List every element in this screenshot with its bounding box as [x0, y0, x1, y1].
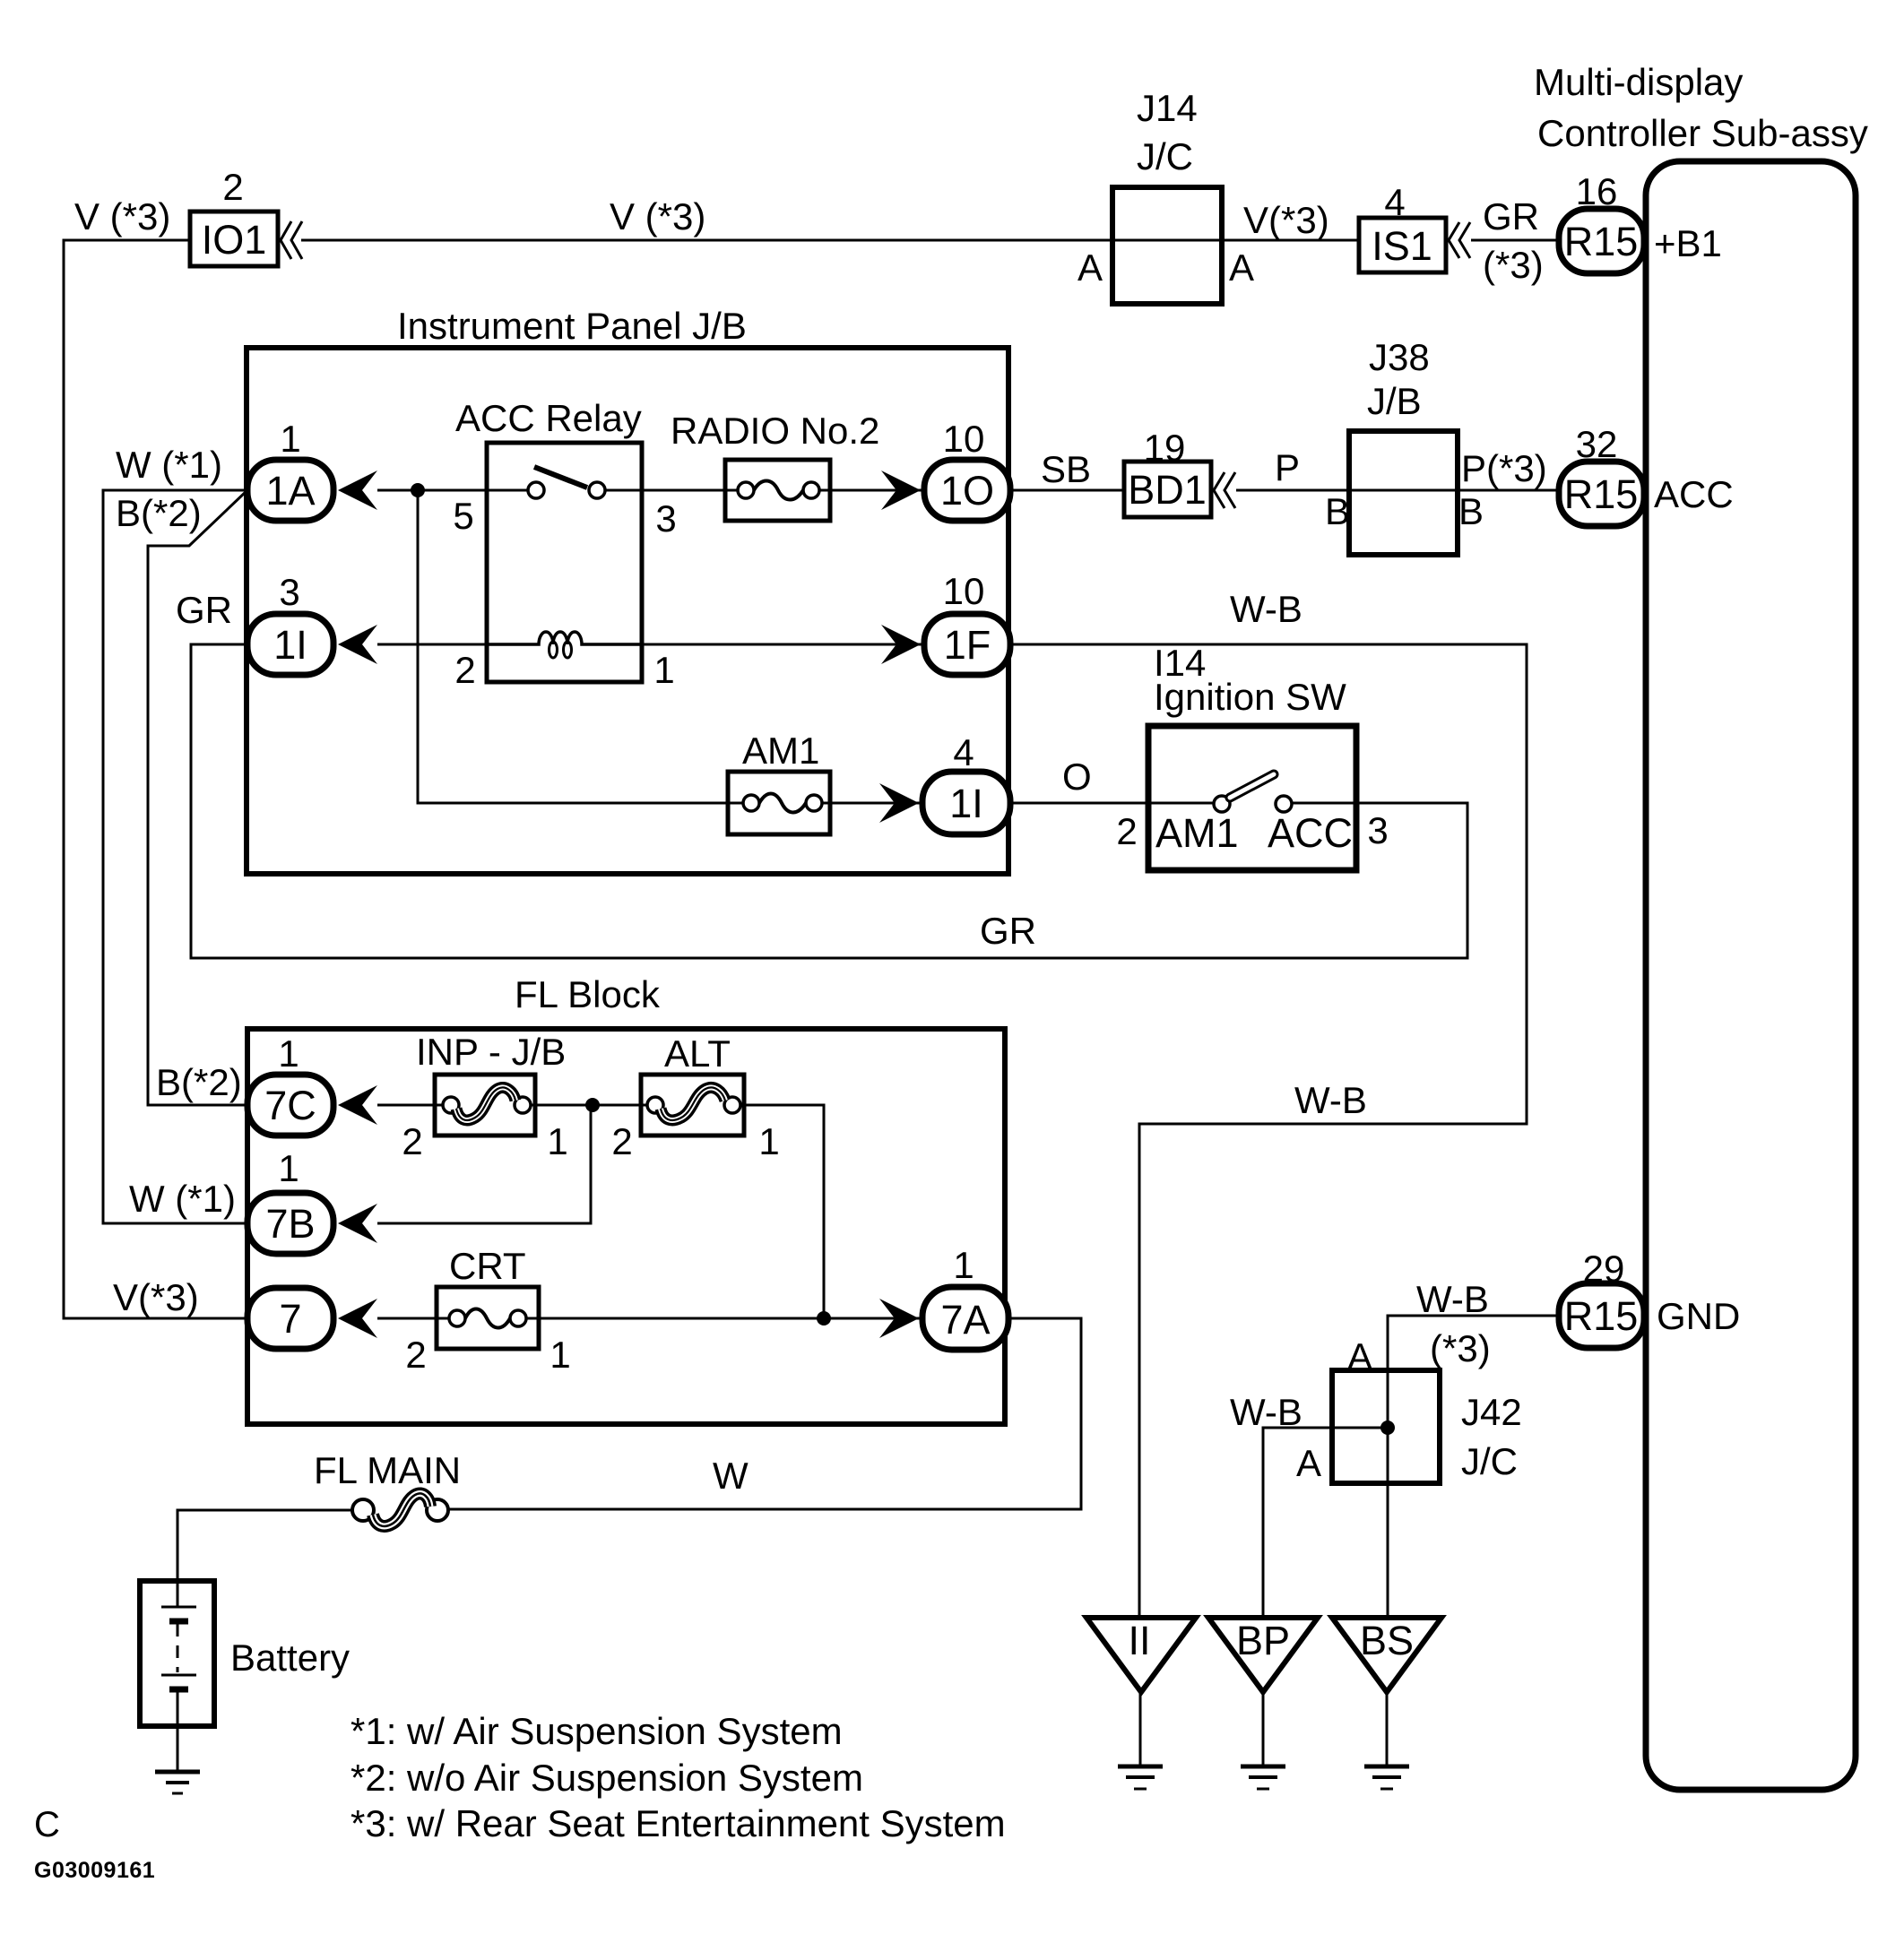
black arrow right of 7: [338, 1299, 377, 1338]
wire 1I(4) to ignition switch: [1010, 802, 1214, 805]
svg-text:W-B: W-B: [1230, 588, 1303, 630]
connector 1A: [247, 460, 333, 521]
black arrow left of 1O: [881, 471, 921, 510]
battery plate long top: [161, 1606, 196, 1609]
connector 7A: [922, 1287, 1008, 1350]
svg-text:3: 3: [655, 497, 676, 540]
svg-text:CRT: CRT: [449, 1245, 526, 1287]
svg-text:*1: w/ Air Suspension System: *1: w/ Air Suspension System: [351, 1710, 843, 1752]
svg-text:(*3): (*3): [1430, 1327, 1491, 1369]
wire R15 GND left to J42 down to BS ground: [1388, 1316, 1559, 1618]
svg-text:ACC: ACC: [1268, 810, 1353, 856]
svg-text:1: 1: [653, 649, 674, 691]
svg-text:II: II: [1128, 1618, 1150, 1663]
wire relay coil pin1 to 1F: [642, 643, 924, 646]
svg-text:G03009161: G03009161: [34, 1858, 155, 1883]
chevron arrow at IS1: [1449, 222, 1459, 258]
Instrument Panel J/B box: [247, 348, 1008, 874]
svg-text:7B: 7B: [265, 1201, 315, 1247]
fuse RADIO No.2: [725, 460, 830, 521]
wire from junction down to AM1 fuse row: [418, 490, 751, 803]
svg-text:W-B: W-B: [1230, 1391, 1303, 1433]
svg-text:1: 1: [547, 1120, 567, 1162]
svg-text:1: 1: [758, 1120, 779, 1162]
wire FL MAIN to battery: [177, 1510, 352, 1581]
battery dashed center line: [177, 1624, 179, 1672]
svg-text:GR: GR: [980, 910, 1036, 952]
svg-text:O: O: [1062, 756, 1092, 798]
wire B(*2) from 1A down to 7C: [148, 490, 247, 1105]
wire RADIO No.2 fuse to 1O: [819, 489, 924, 492]
battery internal wire top: [177, 1581, 179, 1607]
svg-text:3: 3: [279, 571, 299, 613]
svg-text:Ignition SW: Ignition SW: [1154, 676, 1346, 718]
FL Block box: [247, 1029, 1005, 1424]
fusible link FL MAIN: [352, 1499, 374, 1521]
svg-text:V(*3): V(*3): [1243, 199, 1329, 241]
svg-text:W: W: [713, 1455, 749, 1497]
ground symbol under battery: [155, 1770, 200, 1775]
svg-text:IS1: IS1: [1372, 223, 1432, 269]
wire 1F W-B loop to II ground triangle: [1010, 644, 1527, 1618]
svg-text:B: B: [1325, 490, 1350, 532]
svg-text:7C: 7C: [264, 1083, 316, 1128]
black arrow right of 1I: [338, 625, 377, 664]
black arrow left of 1F: [881, 625, 921, 664]
svg-text:V (*3): V (*3): [610, 195, 705, 237]
wire 1O to BD1: [1010, 489, 1124, 492]
svg-text:GR: GR: [176, 589, 232, 631]
relay switch blade: [534, 467, 587, 488]
wire BS triangle to ground: [1386, 1692, 1389, 1766]
connector 1I lower: [922, 772, 1010, 834]
wire relay internal top left: [487, 489, 528, 492]
wire BP triangle to ground: [1262, 1692, 1265, 1766]
connector 1O: [924, 460, 1010, 521]
black arrow right of 7C: [338, 1085, 377, 1125]
ACC Relay box: [487, 443, 642, 682]
wire W(*1) from 1A down to 7B: [103, 490, 247, 1223]
ignition lever: [1230, 774, 1274, 798]
svg-text:1: 1: [280, 418, 300, 460]
fusible link ALT: [641, 1075, 744, 1136]
svg-text:J/B: J/B: [1367, 380, 1422, 422]
black arrow left of 1I(4): [879, 783, 919, 823]
svg-text:FL MAIN: FL MAIN: [314, 1449, 461, 1491]
ground triangle BS: [1332, 1618, 1441, 1692]
wire V(*3) from IO1 left going down left margin to FL block connector 7: [64, 240, 247, 1318]
ground symbol under BS: [1364, 1765, 1409, 1769]
ground triangle II: [1086, 1618, 1196, 1692]
svg-text:1I: 1I: [273, 622, 307, 668]
fusible link INP-J/B: [435, 1075, 535, 1136]
wire through J38 to R15 ACC: [1349, 489, 1559, 492]
svg-text:C: C: [34, 1805, 60, 1844]
junction node on 1A wire: [411, 483, 425, 497]
ground symbol under BP: [1241, 1765, 1285, 1769]
junction J38 J/B box: [1349, 431, 1458, 555]
connector 7: [247, 1288, 333, 1349]
svg-text:5: 5: [453, 495, 473, 537]
connector 1I: [247, 614, 333, 675]
wire INP link to ALT link: [531, 1104, 655, 1107]
svg-text:1I: 1I: [949, 781, 983, 826]
connector IO1: [190, 212, 278, 266]
wire GR(*3) from IS1 to R15 +B1: [1471, 239, 1559, 242]
svg-text:+B1: +B1: [1654, 222, 1722, 264]
connector R15 ACC: [1559, 462, 1644, 526]
svg-text:7A: 7A: [940, 1297, 990, 1343]
svg-text:R15: R15: [1564, 1293, 1639, 1339]
svg-text:Instrument Panel J/B: Instrument Panel J/B: [397, 305, 747, 347]
svg-text:ALT: ALT: [664, 1032, 731, 1075]
svg-text:A: A: [1077, 246, 1103, 289]
ignition ACC contact: [1276, 796, 1292, 812]
wire ALT link right then down to 7A wire junction: [740, 1105, 824, 1318]
battery plate short thick bottom: [169, 1687, 188, 1693]
fuse CRT: [437, 1287, 539, 1349]
ECU Multi-display Controller Sub-assy outline: [1646, 161, 1856, 1790]
svg-text:V (*3): V (*3): [74, 195, 170, 237]
wire 7C to INP-J/B link: [377, 1104, 451, 1107]
svg-text:3: 3: [1367, 809, 1388, 851]
connector R15 +B1: [1559, 209, 1644, 273]
wire GR from 1I down and right to ignition switch loop: [191, 644, 1467, 958]
svg-text:2: 2: [454, 649, 475, 691]
svg-text:(*3): (*3): [1483, 244, 1544, 286]
svg-text:7: 7: [279, 1296, 301, 1342]
svg-text:J42: J42: [1461, 1391, 1522, 1433]
svg-text:BS: BS: [1360, 1618, 1414, 1663]
svg-text:SB: SB: [1041, 448, 1091, 490]
svg-text:P: P: [1275, 446, 1300, 488]
svg-text:P(*3): P(*3): [1461, 447, 1547, 489]
svg-text:10: 10: [943, 570, 985, 612]
svg-text:BD1: BD1: [1128, 467, 1207, 513]
junction J14 J/C box: [1112, 187, 1222, 304]
svg-text:INP - J/B: INP - J/B: [416, 1031, 566, 1073]
svg-text:B: B: [1458, 490, 1484, 532]
black arrow right of 7B: [338, 1204, 377, 1243]
svg-text:1: 1: [278, 1147, 299, 1189]
wire 1A to ACC relay pin 5: [377, 489, 487, 492]
svg-text:Battery: Battery: [230, 1636, 350, 1679]
svg-text:*2: w/o Air Suspension System: *2: w/o Air Suspension System: [351, 1757, 863, 1799]
svg-text:1: 1: [550, 1334, 570, 1376]
svg-text:V(*3): V(*3): [113, 1276, 199, 1318]
ignition AM1 contact: [1214, 796, 1230, 812]
connector R15 GND: [1559, 1283, 1644, 1348]
junction node between INP and ALT: [585, 1098, 600, 1112]
svg-text:AM1: AM1: [1155, 810, 1239, 856]
svg-text:2: 2: [402, 1120, 422, 1162]
svg-text:FL Block: FL Block: [515, 973, 661, 1015]
svg-text:Controller Sub-assy: Controller Sub-assy: [1537, 112, 1868, 154]
svg-text:2: 2: [222, 166, 243, 208]
fuse AM1: [728, 772, 830, 834]
svg-text:GND: GND: [1657, 1295, 1740, 1337]
svg-text:IO1: IO1: [202, 217, 267, 263]
svg-text:R15: R15: [1564, 471, 1639, 517]
svg-text:1O: 1O: [940, 468, 994, 514]
wire BD1 to J38: [1236, 489, 1349, 492]
svg-text:1A: 1A: [265, 468, 315, 514]
svg-text:W-B: W-B: [1294, 1079, 1367, 1121]
wire 7 to CRT fuse: [377, 1317, 457, 1320]
svg-text:BP: BP: [1236, 1618, 1290, 1663]
svg-text:1: 1: [953, 1244, 974, 1286]
chevron arrow at BD1: [1214, 472, 1225, 508]
connector 7C: [247, 1075, 333, 1136]
junction J42 J/C box: [1332, 1370, 1440, 1483]
connector IS1: [1359, 218, 1446, 272]
ignition wire ACC contact to box edge: [1292, 802, 1356, 805]
battery plate long bottom: [161, 1674, 196, 1677]
black arrow left of 7A: [879, 1299, 919, 1338]
svg-text:W (*1): W (*1): [129, 1178, 236, 1220]
svg-text:W (*1): W (*1): [116, 444, 222, 486]
svg-text:2: 2: [1116, 810, 1137, 852]
svg-text:J14: J14: [1137, 87, 1198, 129]
wire II triangle to ground: [1139, 1692, 1142, 1766]
black arrow right of 1A: [338, 471, 377, 510]
svg-text:R15: R15: [1564, 219, 1639, 264]
svg-text:B(*2): B(*2): [116, 492, 202, 534]
chevron arrow at IO1: [281, 221, 291, 259]
svg-text:4: 4: [953, 731, 974, 773]
battery plate short thick top: [169, 1619, 188, 1625]
battery box: [140, 1581, 214, 1726]
svg-text:1: 1: [278, 1032, 299, 1075]
svg-text:2: 2: [405, 1334, 426, 1376]
wire relay internal top right: [605, 489, 642, 492]
relay switch contact left: [528, 482, 544, 498]
junction node on 7A wire: [817, 1311, 831, 1326]
svg-text:*3: w/ Rear Seat Entertainment: *3: w/ Rear Seat Entertainment System: [351, 1802, 1006, 1844]
svg-text:AM1: AM1: [742, 730, 819, 772]
connector BD1: [1124, 462, 1211, 517]
wire relay pin3 to RADIO No.2 fuse: [642, 489, 746, 492]
svg-text:J38: J38: [1369, 336, 1430, 378]
svg-text:ACC Relay: ACC Relay: [455, 397, 642, 439]
junction node inside J42: [1380, 1421, 1395, 1435]
svg-text:10: 10: [943, 418, 985, 460]
connector 7B: [247, 1193, 333, 1254]
svg-text:J/C: J/C: [1137, 135, 1193, 177]
switch I14 Ignition SW box: [1148, 726, 1356, 870]
connector 1F: [924, 614, 1010, 675]
battery internal wire bottom to ground: [177, 1689, 179, 1772]
ground symbol under II: [1118, 1765, 1163, 1769]
wire AM1 fuse to 1I(4): [822, 802, 922, 805]
wire 1I to ACC relay pin 2: [377, 643, 487, 646]
wire 7A right then down to W wire: [448, 1318, 1081, 1509]
svg-text:J/C: J/C: [1461, 1440, 1518, 1482]
ground triangle BP: [1208, 1618, 1318, 1692]
relay switch contact right: [589, 482, 605, 498]
svg-text:A: A: [1296, 1442, 1321, 1484]
svg-text:A: A: [1229, 246, 1254, 289]
wire BP branch to J42 junction: [1263, 1428, 1388, 1618]
svg-text:W-B: W-B: [1416, 1278, 1489, 1320]
wire CRT fuse to 7A: [526, 1317, 922, 1320]
svg-text:ACC: ACC: [1654, 473, 1734, 515]
relay coil: [487, 632, 642, 644]
svg-text:Multi-display: Multi-display: [1534, 61, 1743, 103]
wire 7B right and up to INP-ALT junction: [377, 1105, 591, 1223]
svg-text:2: 2: [611, 1120, 632, 1162]
svg-text:RADIO No.2: RADIO No.2: [671, 410, 879, 452]
svg-text:GR: GR: [1483, 195, 1539, 237]
svg-text:1F: 1F: [944, 622, 991, 668]
wire V(*3) from IO1 right to J14 to IS1: [301, 239, 1359, 242]
svg-text:B(*2): B(*2): [156, 1061, 242, 1103]
